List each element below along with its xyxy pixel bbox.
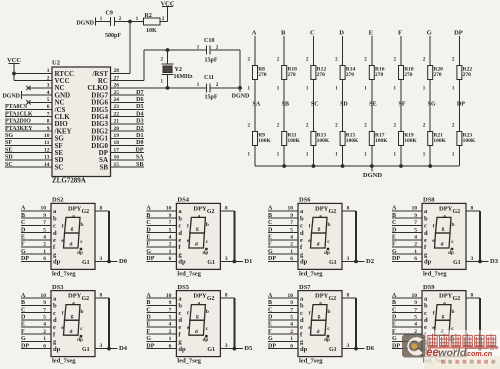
svg-text:2: 2 — [290, 242, 293, 248]
svg-text:E: E — [146, 322, 150, 328]
svg-text:SC: SC — [311, 102, 319, 108]
svg-text:6: 6 — [169, 343, 172, 349]
svg-text:e: e — [178, 324, 181, 331]
svg-text:SF: SF — [399, 102, 406, 108]
svg-text:b: b — [178, 303, 182, 310]
svg-text:7: 7 — [414, 220, 417, 226]
svg-text:VCC: VCC — [7, 57, 21, 64]
junction rail — [341, 164, 345, 168]
wire DS3 pin c net C — [21, 307, 51, 313]
svg-text:a: a — [72, 301, 75, 307]
wire R2 to VCC — [160, 7, 168, 22]
svg-text:DP: DP — [268, 343, 276, 349]
svg-text:SB: SB — [99, 163, 108, 171]
svg-text:1: 1 — [43, 336, 46, 342]
svg-text:d: d — [441, 242, 444, 248]
svg-text:d: d — [424, 230, 428, 237]
wire DS2 pin a net A — [21, 206, 51, 212]
svg-text:SB: SB — [136, 162, 143, 168]
net SE label — [369, 102, 376, 108]
wire DS9 pin a net A — [392, 293, 422, 299]
svg-text:C: C — [21, 307, 25, 313]
wire DS5 pin b net B — [146, 300, 176, 306]
svg-text:2: 2 — [414, 242, 417, 248]
svg-text:b: b — [53, 215, 57, 222]
wire bottom rail — [255, 165, 459, 167]
svg-text:6: 6 — [290, 256, 293, 262]
svg-text:DPY: DPY — [193, 205, 207, 212]
svg-text:D2: D2 — [366, 258, 374, 265]
no-connect pin3 NC — [26, 86, 52, 90]
wire column A — [254, 36, 256, 166]
capacitor C10 — [197, 38, 219, 64]
svg-text:4: 4 — [290, 235, 293, 241]
svg-text:c: c — [178, 223, 181, 230]
svg-text:D1: D1 — [136, 133, 143, 139]
svg-text:D: D — [268, 315, 273, 321]
svg-text:1: 1 — [290, 336, 293, 342]
resistor R20 — [423, 57, 443, 91]
svg-text:b: b — [206, 222, 209, 228]
svg-text:E: E — [392, 322, 396, 328]
svg-text:G1: G1 — [207, 260, 215, 266]
svg-text:SC: SC — [5, 162, 13, 168]
svg-text:world: world — [438, 347, 467, 359]
svg-text:8: 8 — [471, 293, 474, 299]
DS5 seven-segment glyph — [187, 301, 209, 343]
svg-text:DS4: DS4 — [177, 197, 189, 204]
wire DS4 G2 pin 8 — [220, 206, 234, 212]
net DP label — [457, 102, 465, 108]
junction rail — [312, 164, 316, 168]
wire DS7 G2 pin 8 — [342, 293, 356, 299]
junction DS6 common — [354, 260, 358, 264]
svg-text:6: 6 — [43, 343, 46, 349]
wire DS2 pin d net D — [21, 227, 51, 233]
svg-text:A: A — [252, 30, 257, 37]
svg-text:DP: DP — [136, 147, 144, 153]
svg-text:1: 1 — [43, 249, 46, 255]
svg-text:7: 7 — [290, 307, 293, 313]
svg-text:DPY: DPY — [68, 205, 82, 212]
wire DS4 pin b net B — [146, 213, 176, 219]
wire DS8 common vertical — [479, 211, 481, 261]
svg-text:dp: dp — [178, 259, 186, 266]
svg-text:g: g — [442, 226, 445, 232]
svg-text:G2: G2 — [329, 209, 337, 215]
net SA label — [253, 102, 261, 108]
wire DS7 pin c net C — [268, 307, 298, 313]
svg-text:d: d — [70, 329, 73, 335]
svg-text:500pF: 500pF — [105, 33, 121, 39]
wire DS9 pin f net F — [392, 329, 422, 335]
wire pin1 RTCC — [14, 73, 52, 75]
svg-text:b: b — [328, 222, 331, 228]
junction crystal top — [166, 48, 170, 52]
svg-text:dp: dp — [448, 250, 454, 256]
net B label — [281, 30, 286, 37]
net D2 wire (DS6) — [356, 258, 374, 265]
svg-text:C: C — [392, 307, 396, 313]
wire DS3 pin e net E — [21, 322, 51, 328]
svg-text:6: 6 — [169, 256, 172, 262]
wire DS5 pin f net F — [146, 329, 176, 335]
svg-text:DS7: DS7 — [299, 284, 311, 291]
svg-text:F: F — [392, 329, 396, 335]
svg-text:B: B — [268, 213, 272, 219]
wire DS7 common vertical — [355, 298, 357, 348]
display DS2 body — [51, 197, 95, 278]
wire DS2 pin dp net DP — [21, 256, 51, 262]
net D3 wire (DS8) — [480, 258, 499, 265]
svg-text:100K: 100K — [346, 138, 359, 144]
svg-text:DGND: DGND — [2, 93, 20, 99]
svg-text:270: 270 — [404, 72, 413, 78]
svg-text:DPY: DPY — [439, 293, 453, 300]
svg-text:8: 8 — [225, 293, 228, 299]
net PTA1CLK wire (IC pin7) — [5, 111, 52, 117]
svg-text:D: D — [21, 227, 26, 233]
capacitor C11 — [197, 75, 219, 101]
svg-text:10: 10 — [412, 206, 418, 212]
wire column B — [283, 36, 285, 166]
wire DS8 pin b net B — [392, 213, 422, 219]
svg-text:DP: DP — [21, 256, 29, 262]
svg-text:G: G — [392, 249, 397, 255]
svg-text:b: b — [53, 303, 57, 310]
svg-text:b: b — [300, 303, 304, 310]
svg-text:2: 2 — [169, 329, 172, 335]
svg-text:16MHz: 16MHz — [174, 74, 193, 80]
svg-text:B: B — [281, 30, 286, 37]
svg-text:9: 9 — [43, 300, 46, 306]
svg-text:d: d — [70, 242, 73, 248]
svg-text:F: F — [21, 242, 25, 248]
svg-text:C: C — [21, 220, 25, 226]
svg-text:3: 3 — [225, 256, 228, 262]
svg-text:9: 9 — [290, 300, 293, 306]
svg-text:E: E — [21, 322, 25, 328]
svg-text:SD: SD — [5, 155, 13, 161]
IC U2 ZLG7289A — [44, 60, 119, 185]
svg-text:e: e — [178, 237, 181, 244]
svg-text:C: C — [310, 30, 315, 37]
svg-text:A: A — [268, 206, 273, 212]
wire DS2 common vertical — [108, 211, 110, 261]
junction DS3 common — [107, 347, 111, 351]
svg-text:C9: C9 — [106, 11, 113, 17]
svg-text:f: f — [62, 223, 64, 229]
svg-text:8: 8 — [471, 206, 474, 212]
svg-text:D2: D2 — [136, 126, 143, 132]
wire DS6 pin a net A — [268, 206, 298, 212]
wire DS8 pin dp net DP — [392, 256, 422, 262]
wire DS3 G1 pin 3 — [95, 343, 109, 349]
svg-text:G2: G2 — [453, 296, 461, 302]
svg-text:b: b — [300, 215, 304, 222]
svg-text:G: G — [21, 249, 26, 255]
svg-text:F: F — [398, 30, 402, 37]
svg-text:DPY: DPY — [193, 293, 207, 300]
svg-text:3: 3 — [225, 343, 228, 349]
svg-text:G: G — [392, 336, 397, 342]
svg-text:3: 3 — [347, 256, 350, 262]
svg-text:9: 9 — [414, 300, 417, 306]
svg-text:DP: DP — [457, 102, 465, 108]
svg-text:f: f — [309, 223, 311, 229]
svg-text:c: c — [178, 310, 181, 317]
svg-text:E: E — [392, 235, 396, 241]
wire DS5 pin d net D — [146, 315, 176, 321]
svg-text:a: a — [443, 301, 446, 307]
svg-text:15pF: 15pF — [205, 95, 218, 101]
svg-text:100K: 100K — [375, 138, 388, 144]
svg-text:6: 6 — [290, 343, 293, 349]
svg-text:G2: G2 — [207, 296, 215, 302]
wire DS7 pin dp net DP — [268, 343, 298, 349]
junction crystal bottom — [166, 86, 170, 90]
svg-text:G: G — [427, 30, 432, 37]
svg-text:B: B — [21, 213, 25, 219]
svg-text:b: b — [328, 309, 331, 315]
power DGND (C9 left) — [76, 18, 110, 27]
wire DS5 G1 pin 3 — [220, 343, 234, 349]
wire DS7 pin a net A — [268, 293, 298, 299]
wire column DP — [458, 36, 460, 166]
svg-text:E: E — [268, 235, 272, 241]
svg-text:dp: dp — [324, 250, 330, 256]
svg-text:g: g — [196, 226, 199, 232]
svg-text:b: b — [424, 303, 428, 310]
resistor R11 — [277, 123, 301, 157]
svg-text:100K: 100K — [317, 138, 330, 144]
svg-text:10: 10 — [288, 206, 294, 212]
svg-text:D: D — [392, 227, 397, 233]
display DS9 body — [422, 284, 466, 365]
svg-text:C: C — [268, 220, 272, 226]
net SD label — [340, 102, 348, 108]
svg-text:SA: SA — [253, 102, 261, 108]
junction DS7 common — [354, 347, 358, 351]
DS9 seven-segment glyph — [432, 301, 454, 343]
net D0 wire (IC pin18) — [111, 140, 145, 146]
svg-text:D4: D4 — [119, 345, 128, 352]
svg-text:5: 5 — [169, 227, 172, 233]
svg-text:DP: DP — [268, 256, 276, 262]
net D4 wire (DS3) — [109, 345, 128, 352]
svg-text:D: D — [21, 315, 26, 321]
resistor R8 — [248, 57, 267, 91]
wire DS8 G1 pin 3 — [466, 256, 480, 262]
svg-text:A: A — [146, 206, 151, 212]
power DGND (IC pin4 GND) — [2, 91, 52, 99]
svg-text:10: 10 — [166, 206, 172, 212]
wire DS7 pin e net E — [268, 322, 298, 328]
wire column C — [312, 36, 314, 166]
svg-text:9: 9 — [169, 300, 172, 306]
svg-text:G: G — [146, 249, 151, 255]
svg-text:d: d — [178, 230, 182, 237]
wire DS5 pin a net A — [146, 293, 176, 299]
svg-text:c: c — [53, 223, 56, 230]
svg-text:SG: SG — [428, 102, 436, 108]
svg-text:E: E — [369, 30, 373, 37]
svg-text:a: a — [319, 213, 322, 219]
svg-text:D1: D1 — [244, 258, 252, 265]
svg-text:G1: G1 — [329, 260, 337, 266]
no-connect pin5 NC — [26, 100, 52, 104]
svg-text:E: E — [268, 322, 272, 328]
wire DS8 pin f net F — [392, 242, 422, 248]
power DGND (crystal) — [232, 88, 250, 100]
resistor R18 — [394, 57, 414, 91]
svg-text:U2: U2 — [52, 60, 60, 67]
DS8 seven-segment glyph — [432, 213, 454, 255]
net A label — [252, 30, 257, 37]
net SC label — [311, 102, 319, 108]
resistor R19 — [394, 123, 418, 157]
wire DS7 pin g net G — [268, 336, 298, 342]
svg-text:dp: dp — [300, 346, 308, 353]
svg-text:270: 270 — [317, 72, 326, 78]
net E label — [369, 30, 373, 37]
net PTA0CS wire (IC pin6) — [5, 104, 52, 110]
watermark slogan — [441, 360, 495, 364]
svg-text:D0: D0 — [136, 140, 143, 146]
svg-text:SE: SE — [5, 147, 12, 153]
wire column D — [342, 36, 344, 166]
net D6 wire (IC pin24) — [111, 97, 145, 103]
svg-text:d: d — [300, 317, 304, 324]
resistor R17 — [364, 123, 388, 157]
wire pin2 VCC — [14, 80, 52, 82]
net PTA2DIO wire (IC pin8) — [5, 119, 52, 125]
svg-text:c: c — [424, 223, 427, 230]
wire DS6 pin b net B — [268, 213, 298, 219]
svg-text:ZLG7289A: ZLG7289A — [52, 177, 86, 185]
wire DS8 pin c net C — [392, 220, 422, 226]
svg-text:a: a — [198, 213, 201, 219]
svg-text:D6: D6 — [136, 97, 143, 103]
svg-text:1: 1 — [290, 249, 293, 255]
wire DS9 pin b net B — [392, 300, 422, 306]
svg-text:SA: SA — [136, 155, 144, 161]
svg-text:dp: dp — [203, 250, 209, 256]
wire DS6 pin f net F — [268, 242, 298, 248]
svg-text:7: 7 — [414, 307, 417, 313]
wire DS6 pin g net G — [268, 249, 298, 255]
svg-text:G2: G2 — [82, 296, 90, 302]
net SG wire (IC pin10) — [5, 133, 52, 139]
net D6 wire (DS7) — [356, 345, 375, 352]
svg-text:270: 270 — [375, 72, 384, 78]
svg-text:g: g — [196, 313, 199, 319]
resistor R23 — [452, 123, 476, 157]
svg-text:led_7seg: led_7seg — [299, 358, 323, 365]
svg-text:7: 7 — [43, 307, 46, 313]
resistor R9 — [248, 123, 272, 157]
svg-text:b: b — [452, 222, 455, 228]
svg-text:D3: D3 — [136, 119, 143, 125]
wire column F — [400, 36, 402, 166]
svg-text:C10: C10 — [204, 38, 214, 44]
svg-text:DGND: DGND — [363, 172, 382, 179]
wire DS3 pin d net D — [21, 315, 51, 321]
svg-text:DPY: DPY — [68, 293, 82, 300]
svg-text:DS6: DS6 — [299, 197, 311, 204]
svg-text:D: D — [392, 315, 397, 321]
crystal Y2 — [161, 50, 193, 88]
svg-text:5: 5 — [414, 227, 417, 233]
svg-text:led_7seg: led_7seg — [177, 358, 201, 365]
svg-text:A: A — [268, 293, 273, 299]
wire column E — [371, 36, 373, 166]
svg-text:f: f — [187, 223, 189, 229]
wire DS4 pin e net E — [146, 235, 176, 241]
svg-text:Y2: Y2 — [175, 67, 182, 73]
wire DS2 pin f net F — [21, 242, 51, 248]
svg-text:C: C — [392, 220, 396, 226]
wire C11 to corner — [210, 87, 240, 89]
svg-text:D0: D0 — [119, 258, 127, 265]
svg-text:d: d — [317, 242, 320, 248]
svg-text:C11: C11 — [204, 75, 214, 81]
svg-text:A: A — [392, 206, 397, 212]
svg-text:B: B — [392, 213, 396, 219]
svg-text:D4: D4 — [136, 111, 143, 117]
svg-text:270: 270 — [258, 72, 267, 78]
wire top rail — [144, 49, 207, 51]
svg-text:270: 270 — [287, 72, 296, 78]
svg-text:led_7seg: led_7seg — [52, 358, 76, 365]
svg-text:100K: 100K — [404, 138, 417, 144]
svg-text:B: B — [392, 300, 396, 306]
svg-text:e: e — [53, 324, 56, 331]
svg-text:9: 9 — [43, 213, 46, 219]
svg-text:2: 2 — [169, 242, 172, 248]
display DS5 body — [176, 284, 220, 365]
svg-text:5: 5 — [290, 315, 293, 321]
net D2 wire (IC pin20) — [111, 126, 145, 132]
svg-text:100K: 100K — [287, 138, 300, 144]
svg-text:8: 8 — [225, 206, 228, 212]
svg-text:3: 3 — [100, 343, 103, 349]
svg-text:dp: dp — [178, 346, 186, 353]
net SC wire (IC pin14) — [5, 162, 52, 168]
wire DS5 pin c net C — [146, 307, 176, 313]
svg-text:b: b — [81, 222, 84, 228]
svg-text:b: b — [178, 215, 182, 222]
svg-text:270: 270 — [346, 72, 355, 78]
wire DS5 pin e net E — [146, 322, 176, 328]
net PTA3KEY wire (IC pin9) — [5, 126, 52, 132]
resistor R16 — [364, 57, 384, 91]
wire DS9 common vertical — [479, 298, 481, 348]
svg-text:4: 4 — [414, 235, 417, 241]
svg-text:DP: DP — [392, 343, 400, 349]
svg-text:3: 3 — [100, 256, 103, 262]
svg-text:A: A — [392, 293, 397, 299]
svg-text:E: E — [146, 235, 150, 241]
svg-text:D5: D5 — [136, 104, 143, 110]
svg-text:led_7seg: led_7seg — [299, 270, 323, 277]
svg-text:b: b — [206, 309, 209, 315]
svg-text:dp: dp — [53, 346, 61, 353]
net SB wire (IC pin15) — [111, 162, 145, 168]
svg-text:D: D — [268, 227, 273, 233]
resistor R13 — [306, 123, 330, 157]
svg-text:4: 4 — [290, 322, 293, 328]
